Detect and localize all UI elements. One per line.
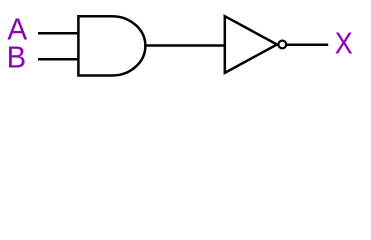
- svg-text:X: X: [335, 26, 353, 61]
- svg-text:B: B: [7, 40, 27, 75]
